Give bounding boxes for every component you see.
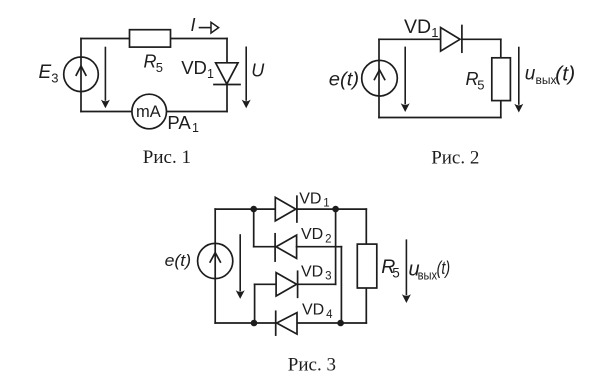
svg-text:mA: mA <box>136 103 161 121</box>
label e(t) fig2 <box>329 69 359 90</box>
output voltage arrow fig3 <box>402 240 411 303</box>
svg-text:E: E <box>39 62 52 83</box>
svg-text:3: 3 <box>325 271 331 283</box>
svg-text:1: 1 <box>192 121 199 135</box>
svg-text:5: 5 <box>477 78 484 93</box>
output voltage arrow fig2 <box>514 48 523 113</box>
wire VD2 left segment <box>254 246 275 248</box>
svg-text:Рис. 2: Рис. 2 <box>431 148 479 169</box>
svg-text:(t): (t) <box>555 63 575 85</box>
wire fig2 right upper <box>500 39 502 58</box>
voltage source e(t) fig2 <box>362 60 398 96</box>
node C junction dot top-right <box>332 206 339 213</box>
label VD2 fig3 <box>301 226 332 245</box>
wire VD3 right segment <box>298 283 336 285</box>
label VD1 fig2 <box>404 16 439 40</box>
current source E3 fig1 <box>64 57 99 92</box>
svg-text:3: 3 <box>51 71 58 86</box>
wire fig3 left <box>214 209 216 323</box>
svg-text:Рис. 3: Рис. 3 <box>288 355 336 376</box>
milliammeter PA1 fig1 <box>132 94 167 129</box>
label VD1 fig3 <box>299 190 330 209</box>
node D junction dot bottom-right <box>337 320 344 327</box>
label VD3 fig3 <box>301 263 332 282</box>
svg-text:u: u <box>525 64 536 85</box>
svg-text:VD: VD <box>302 302 324 319</box>
svg-text:VD: VD <box>301 226 323 243</box>
label u_вых(t) fig2 <box>525 63 576 87</box>
wire fig2 bottom <box>379 117 501 119</box>
svg-text:VD: VD <box>181 57 207 78</box>
label e(t) fig3 <box>165 252 192 270</box>
voltage source e(t) fig3 <box>198 243 233 278</box>
wire fig1 bottom-right segment <box>167 111 228 113</box>
wire VD2 output down to node D <box>340 247 342 323</box>
voltage arrow U fig1 <box>242 47 251 108</box>
svg-text:Рис. 1: Рис. 1 <box>143 147 191 168</box>
svg-text:(t): (t) <box>437 258 451 278</box>
wire fig1 right lower <box>226 85 228 112</box>
current label I fig1 <box>191 15 196 35</box>
svg-text:вых: вых <box>536 73 557 87</box>
label E3 fig1 <box>39 62 59 86</box>
svg-text:5: 5 <box>156 60 163 75</box>
svg-text:VD: VD <box>301 263 323 280</box>
wire fig1 right upper <box>226 39 228 63</box>
wire VD3 left segment <box>255 283 277 285</box>
svg-text:2: 2 <box>325 234 331 246</box>
svg-text:e(t): e(t) <box>329 69 359 90</box>
svg-text:VD: VD <box>404 16 431 38</box>
current arrow I fig1 <box>200 22 219 33</box>
svg-text:e(t): e(t) <box>165 252 192 270</box>
wire VD2 right segment <box>297 246 342 248</box>
wire fig3 right upper <box>365 209 367 244</box>
wire VD3 output up to node C <box>335 209 337 284</box>
caption Рис. 2 <box>431 148 479 169</box>
diode VD2 fig3 <box>275 234 297 261</box>
wire fig1 top-right segment <box>171 38 228 40</box>
loop current down arrow fig1 <box>101 48 110 109</box>
svg-text:U: U <box>251 61 265 81</box>
label PA1 fig1 <box>167 112 199 135</box>
svg-text:VD: VD <box>299 190 321 207</box>
diode VD1 fig3 <box>275 196 297 222</box>
svg-text:R: R <box>144 52 157 72</box>
wire fig2 right lower <box>500 101 502 118</box>
diode VD1 fig1 <box>214 63 240 85</box>
resistor R5 fig1 <box>130 30 171 75</box>
wire fig1 bottom-left segment <box>81 111 132 113</box>
diode VD3 fig3 <box>276 271 298 297</box>
wire fig3 right lower <box>365 288 367 323</box>
svg-text:вых: вых <box>418 268 438 282</box>
resistor R5 fig3 <box>357 244 400 288</box>
diode VD4 fig3 <box>276 311 297 335</box>
diode VD1 fig2 <box>441 26 462 53</box>
svg-text:PA: PA <box>167 112 191 133</box>
label u_вых(t) fig3 <box>409 258 451 283</box>
wire fig2 left <box>378 39 380 117</box>
wire fig2 top-left segment <box>379 38 441 40</box>
label VD1 fig1 <box>181 57 214 81</box>
svg-text:5: 5 <box>392 266 400 281</box>
node A junction dot top-left <box>250 206 257 213</box>
svg-text:1: 1 <box>431 25 438 40</box>
label VD4 fig3 <box>302 302 333 321</box>
caption Рис. 1 <box>143 147 191 168</box>
svg-text:1: 1 <box>323 198 329 210</box>
wire fig1 left <box>80 39 82 112</box>
svg-text:4: 4 <box>326 309 333 321</box>
loop current down arrow fig3 <box>236 235 245 299</box>
resistor R5 fig2 <box>466 58 511 101</box>
svg-text:I: I <box>191 15 196 35</box>
wire fig3 top (right of VD1) <box>297 208 366 210</box>
wire fig1 top-left segment <box>81 38 130 40</box>
label U fig1 <box>251 61 265 81</box>
wire fig3 bottom (left of VD4) <box>215 322 276 324</box>
caption Рис. 3 <box>288 355 336 376</box>
loop current down arrow fig2 <box>401 47 410 112</box>
wire fig3 top (left of VD1) <box>215 208 275 210</box>
svg-text:1: 1 <box>207 67 214 81</box>
node B junction dot bottom-left <box>251 320 258 327</box>
wire fig2 top-right segment <box>462 38 501 40</box>
wire fig3 bottom (right of VD4) <box>297 322 366 324</box>
wire node A down to VD2 <box>253 209 255 247</box>
wire VD3 left down to node B <box>254 284 256 323</box>
